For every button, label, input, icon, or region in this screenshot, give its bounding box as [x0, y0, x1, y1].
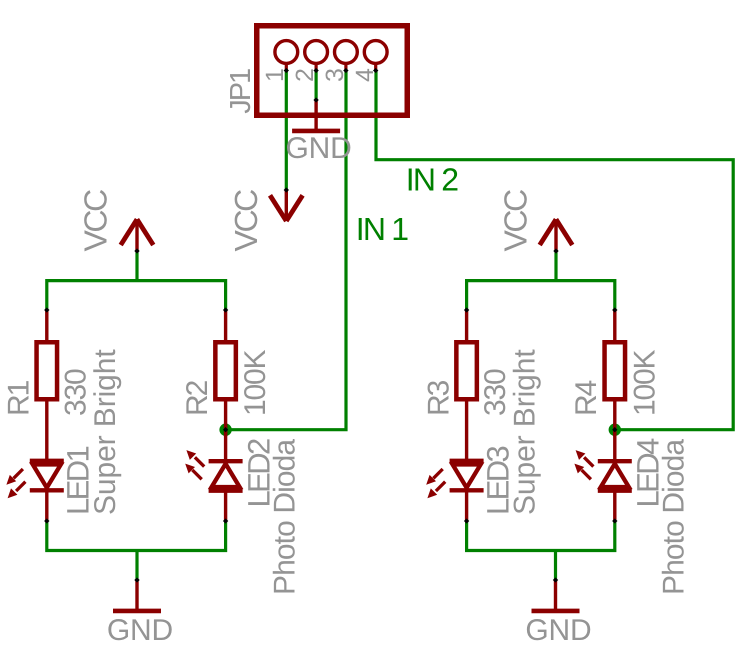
svg-text:R2: R2: [181, 380, 214, 416]
svg-text:Photo Dioda: Photo Dioda: [658, 439, 691, 595]
svg-text:100K: 100K: [628, 350, 661, 416]
svg-text:JP1: JP1: [225, 69, 257, 114]
svg-text:100K: 100K: [239, 350, 272, 416]
svg-text:IN 2: IN 2: [406, 162, 458, 198]
svg-text:VCC: VCC: [228, 190, 264, 252]
svg-text:GND: GND: [286, 132, 352, 165]
svg-text:VCC: VCC: [498, 190, 534, 252]
svg-text:4: 4: [351, 68, 379, 82]
svg-text:R3: R3: [423, 380, 456, 416]
svg-text:1: 1: [261, 68, 289, 82]
svg-text:IN 1: IN 1: [356, 211, 408, 247]
svg-text:Super Bright: Super Bright: [509, 349, 542, 515]
svg-text:R1: R1: [3, 380, 36, 416]
svg-text:VCC: VCC: [78, 190, 114, 252]
svg-text:2: 2: [291, 68, 319, 82]
svg-text:GND: GND: [107, 614, 173, 647]
svg-text:330: 330: [479, 369, 512, 416]
svg-text:330: 330: [59, 369, 92, 416]
svg-text:R4: R4: [570, 380, 603, 416]
svg-text:GND: GND: [525, 614, 591, 647]
svg-text:Photo Dioda: Photo Dioda: [269, 439, 302, 595]
svg-text:Super Bright: Super Bright: [89, 349, 122, 515]
svg-text:3: 3: [321, 68, 349, 82]
